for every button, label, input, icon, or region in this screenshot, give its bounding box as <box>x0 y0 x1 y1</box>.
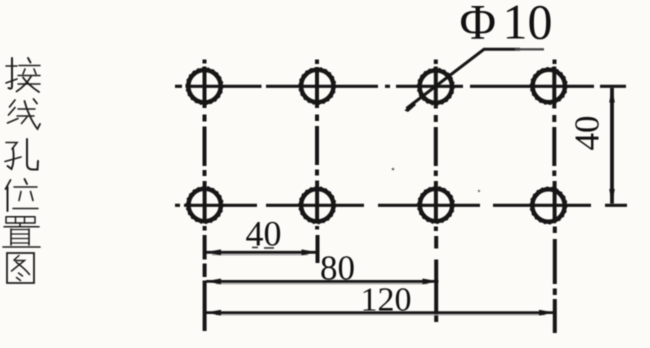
svg-text:Φ: Φ <box>460 0 497 50</box>
scan echo under dim 120 <box>216 314 545 316</box>
vertical centerline col3 <box>434 60 438 323</box>
leader end tick <box>405 102 417 113</box>
dimension line 120 bottom <box>206 311 556 314</box>
svg-text:80: 80 <box>320 249 355 288</box>
dimension line 40 bottom <box>206 251 316 254</box>
hole circle row2 col3 <box>420 189 452 221</box>
vertical centerline col2 <box>315 60 320 264</box>
arrowheads <box>205 87 615 316</box>
char 位 <box>6 179 39 211</box>
char 孔 <box>5 139 38 170</box>
arrow right (40 bottom right end) <box>302 249 318 255</box>
dimension line 80 bottom <box>206 280 439 283</box>
tick specks under text 40 <box>252 246 274 249</box>
title text column: 接线孔位置图 drawn as stroke paths <box>3 58 40 283</box>
arrow up (40 vertical top) <box>609 87 615 103</box>
dimension texts <box>246 0 607 319</box>
hole circle row2 col2 <box>301 189 333 221</box>
horizontal centerline row1 <box>175 85 626 88</box>
arrow left (80 left end) <box>205 279 221 285</box>
arrow down (40 vertical bottom) <box>609 189 615 205</box>
arrow left (40 bottom left end) <box>205 249 221 255</box>
speck <box>392 168 395 171</box>
hole circle row1 col4 <box>533 70 565 102</box>
char 线 <box>8 99 41 129</box>
svg-text:40: 40 <box>246 214 282 254</box>
svg-text:40: 40 <box>568 116 607 151</box>
speck <box>478 190 480 192</box>
hole circle row2 col1 <box>189 189 221 221</box>
char 接 <box>6 58 40 92</box>
arrow right (120 right end) <box>539 310 555 316</box>
hole circle row1 col3 <box>420 70 452 102</box>
leader line for hole diameter <box>407 49 521 108</box>
svg-text:10: 10 <box>503 0 553 50</box>
horizontal centerline row2 <box>175 204 627 207</box>
leader tail faded <box>515 48 544 50</box>
drawing group <box>175 49 627 333</box>
arrow right (80 right end) <box>423 279 439 285</box>
hole circle row2 col4 <box>532 189 564 221</box>
arrow left (120 left end) <box>205 310 221 316</box>
vertical centerline col4 <box>552 60 557 334</box>
ragged outer edges of holes <box>186 68 567 224</box>
char 置 <box>3 217 40 247</box>
scan echo under dim 40 <box>212 254 308 256</box>
svg-text:120: 120 <box>361 282 412 319</box>
dimension line 40 vertical right <box>610 88 614 204</box>
char 图 <box>7 253 34 283</box>
vertical centerline col1 <box>203 60 207 332</box>
scan echo under dim 80 <box>216 283 428 285</box>
hole circle row1 col1 <box>188 70 220 102</box>
hole circle row1 col2 <box>301 70 333 102</box>
